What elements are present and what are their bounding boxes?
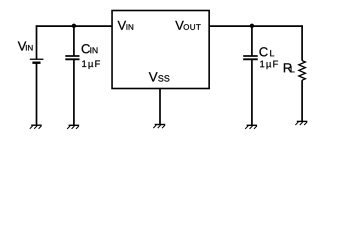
node: output junction dot [250,24,254,28]
wire: input rail from battery to U1 VIN pin [36,25,113,27]
ground (RL) [295,121,307,125]
wire: U1 VSS pin lead [159,89,161,125]
label CIN [82,44,98,53]
label VIN (source) [18,42,33,51]
ground (CL) [245,125,257,129]
label CL [259,47,274,56]
resistor RL [299,61,306,81]
wire: RL bottom lead [301,80,303,121]
wire: CL top lead [251,26,253,56]
regulator U1 body [112,11,209,89]
battery VIN source [30,59,44,62]
pin label VIN (U1) [118,21,134,30]
ground (VSS) [153,125,165,129]
wire: battery top lead [36,25,38,59]
value label 1uF (CIN) [82,60,100,69]
wire: CIN top lead [73,26,75,56]
node: input junction dot [72,24,76,28]
wire: CL bottom lead [251,59,253,125]
wire: RL top lead [301,25,303,60]
ground (CIN) [67,125,79,129]
label RL [284,63,295,72]
value label 1uF (CL) [260,61,278,70]
capacitor CL [243,56,258,59]
capacitor CIN [65,56,79,59]
pin label VSS (U1) [149,72,170,81]
wire: output rail from U1 VOUT to RL [209,25,303,27]
wire: battery bottom lead [36,63,38,125]
pin label VOUT (U1) [175,21,200,30]
ground (battery) [30,125,42,129]
wire: CIN bottom lead [73,59,75,125]
